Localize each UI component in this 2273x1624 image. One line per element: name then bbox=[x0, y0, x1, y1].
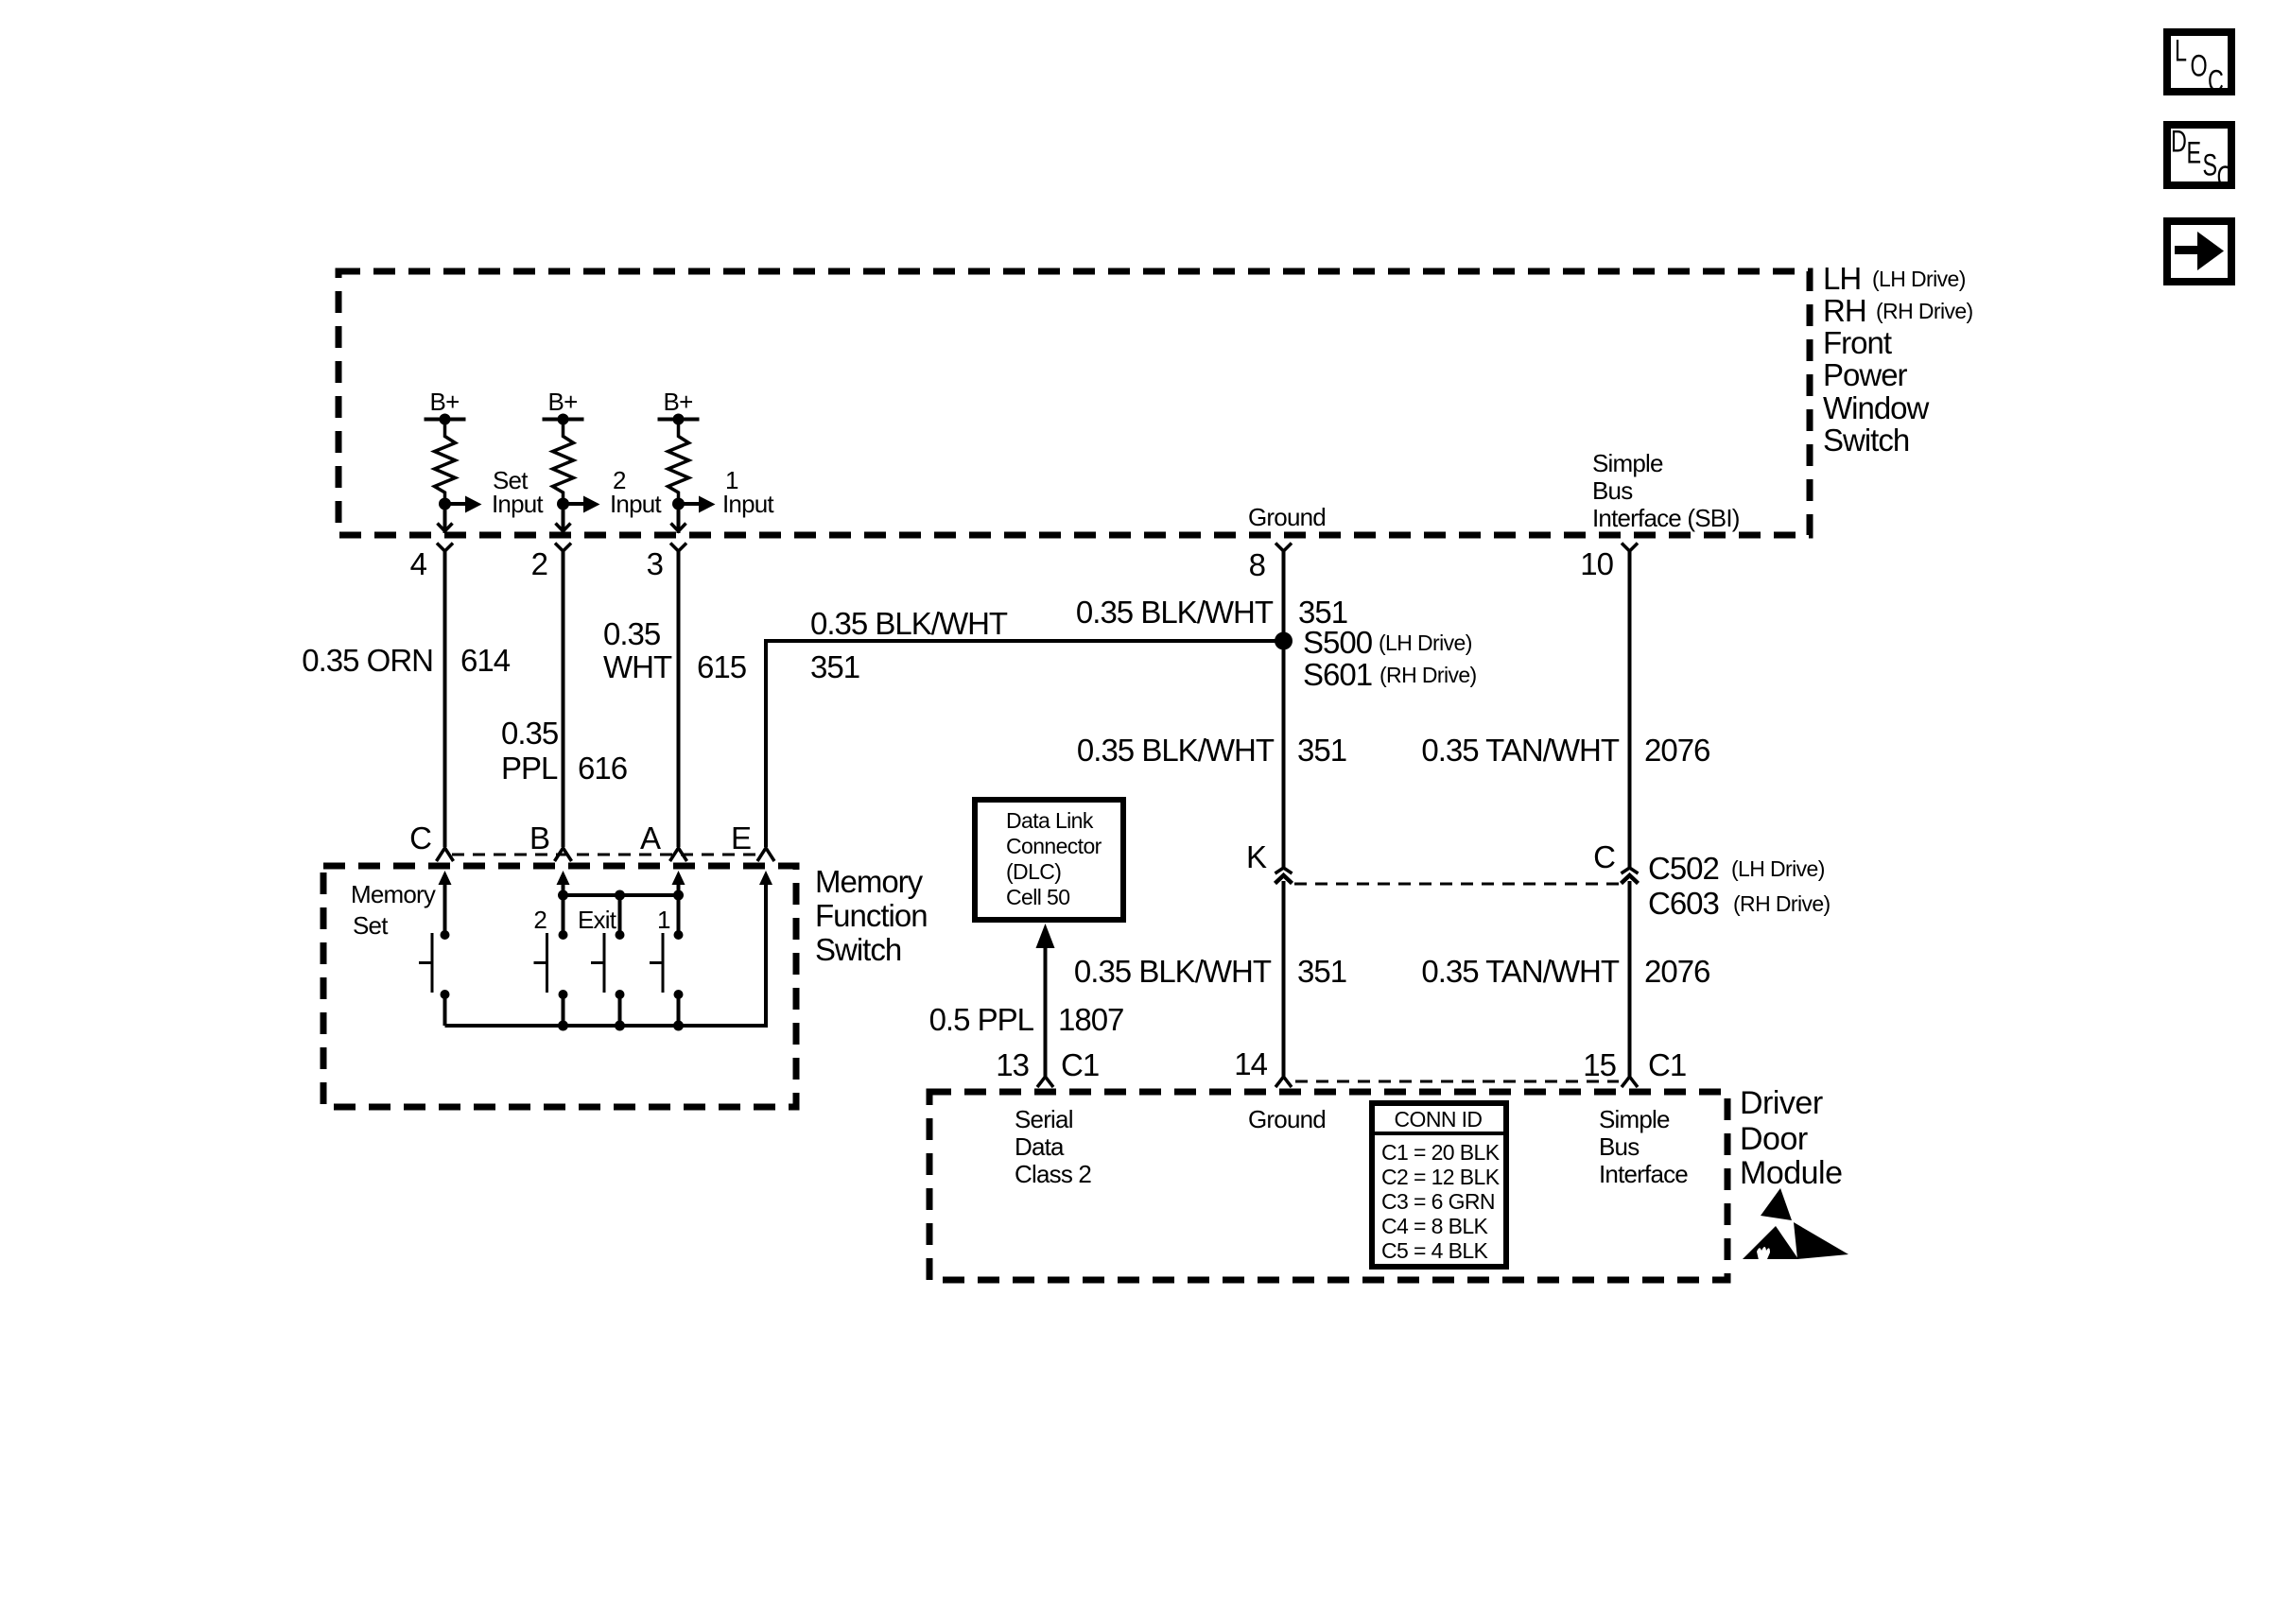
svg-text:WHT: WHT bbox=[603, 649, 672, 684]
wire: pin 8 down to splice and connector K bbox=[1282, 551, 1286, 868]
pin 10 connector bbox=[1580, 544, 1638, 582]
svg-text:351: 351 bbox=[1297, 733, 1346, 768]
switch 1 (pin A branch) bbox=[650, 871, 685, 1026]
Front Power Window Switch dashed box bbox=[338, 271, 1810, 535]
svg-text:C603: C603 bbox=[1648, 886, 1719, 921]
svg-text:C1 = 20 BLK: C1 = 20 BLK bbox=[1381, 1140, 1501, 1165]
svg-text:0.35 ORN: 0.35 ORN bbox=[302, 643, 433, 678]
svg-text:C: C bbox=[409, 821, 431, 855]
svg-text:0.35: 0.35 bbox=[501, 716, 558, 751]
wire: pin 13 to DLC with up arrow (0.5 PPL 1807) bbox=[929, 924, 1124, 1077]
Simple Bus Interface label (module pin 15) bbox=[1599, 1105, 1688, 1188]
svg-text:E: E bbox=[731, 821, 751, 855]
DESC icon box bbox=[2167, 125, 2232, 194]
svg-text:Connector: Connector bbox=[1006, 834, 1102, 858]
B+ terminal (2 input branch) bbox=[543, 388, 584, 425]
svg-text:C4 = 8 BLK: C4 = 8 BLK bbox=[1381, 1214, 1489, 1238]
Set Input tap arrow bbox=[445, 466, 545, 518]
in-line connector C502/C603 at C bbox=[1593, 839, 1830, 921]
svg-text:0.35 TAN/WHT: 0.35 TAN/WHT bbox=[1421, 733, 1619, 768]
memory pin A bbox=[640, 821, 687, 861]
wire label: 0.35 TAN/WHT 2076 (lower) bbox=[1421, 954, 1709, 989]
pin 2 connector bbox=[531, 544, 571, 582]
svg-text:(LH Drive): (LH Drive) bbox=[1731, 856, 1825, 881]
node: Set input tap bbox=[439, 498, 451, 510]
Memory Function Switch label bbox=[815, 864, 928, 967]
svg-text:615: 615 bbox=[697, 649, 746, 684]
svg-text:Bus: Bus bbox=[1592, 476, 1633, 505]
svg-text:C3 = 6 GRN: C3 = 6 GRN bbox=[1381, 1189, 1495, 1214]
wire label: 0.35 BLK/WHT 351 (lower) bbox=[1074, 954, 1346, 989]
svg-text:616: 616 bbox=[578, 751, 627, 786]
svg-text:C5 = 4 BLK: C5 = 4 BLK bbox=[1381, 1238, 1489, 1263]
svg-text:C2 = 12 BLK: C2 = 12 BLK bbox=[1381, 1165, 1501, 1189]
svg-text:14: 14 bbox=[1234, 1046, 1267, 1081]
memory set switch (pin C branch) bbox=[419, 871, 452, 1026]
svg-text:1: 1 bbox=[657, 906, 670, 934]
B+ terminal (Set input branch) bbox=[425, 388, 466, 425]
svg-text:E: E bbox=[2187, 136, 2202, 169]
Driver Door Module dashed box bbox=[929, 1092, 1727, 1280]
svg-text:0.35 BLK/WHT: 0.35 BLK/WHT bbox=[1076, 595, 1274, 630]
in-line connector C502/C603 at K bbox=[1246, 839, 1293, 884]
memory pin B bbox=[529, 821, 572, 861]
svg-text:C1: C1 bbox=[1061, 1047, 1099, 1082]
svg-text:Input: Input bbox=[722, 490, 774, 518]
wire label: 0.35 BLK/WHT 351 (mid) bbox=[1077, 733, 1346, 768]
Memory Function Switch dashed box bbox=[323, 866, 796, 1107]
node: 2 input tap bbox=[557, 498, 569, 510]
svg-text:B: B bbox=[529, 821, 549, 855]
svg-text:Driver: Driver bbox=[1740, 1085, 1823, 1121]
svg-text:Interface (SBI): Interface (SBI) bbox=[1592, 504, 1740, 532]
wire: 2 input to pin 2 with arrowhead bbox=[556, 504, 571, 533]
svg-text:D: D bbox=[2171, 125, 2187, 158]
wire label near splice: 0.35 BLK/WHT 351 bbox=[1076, 595, 1347, 630]
CONN ID table bbox=[1372, 1103, 1506, 1267]
pull-up resistor (Set input) bbox=[435, 420, 456, 505]
wire: connector K to pin 14 bbox=[1282, 881, 1286, 1077]
svg-text:CONN ID: CONN ID bbox=[1395, 1107, 1483, 1132]
svg-text:Function: Function bbox=[815, 898, 928, 933]
svg-text:Switch: Switch bbox=[1823, 423, 1909, 458]
svg-text:C502: C502 bbox=[1648, 851, 1719, 886]
memory connector dashed line bbox=[452, 854, 758, 856]
svg-text:Set: Set bbox=[353, 911, 389, 940]
svg-text:A: A bbox=[640, 821, 661, 855]
svg-text:Input: Input bbox=[610, 490, 662, 518]
svg-text:K: K bbox=[1246, 839, 1267, 874]
svg-text:C: C bbox=[1593, 839, 1615, 874]
wire: 1 input to pin 3 with arrowhead bbox=[671, 504, 686, 533]
svg-text:0.35 BLK/WHT: 0.35 BLK/WHT bbox=[810, 606, 1008, 641]
svg-text:10: 10 bbox=[1580, 546, 1613, 581]
svg-text:(RH Drive): (RH Drive) bbox=[1876, 299, 1973, 323]
memory pin E bbox=[731, 821, 774, 861]
svg-text:Memory: Memory bbox=[815, 864, 924, 899]
svg-text:C: C bbox=[2208, 64, 2224, 97]
Data Link Connector (DLC) box bbox=[975, 800, 1123, 920]
exit switch bbox=[578, 895, 625, 1026]
pin 15 connector bbox=[1583, 1047, 1686, 1087]
svg-text:(LH Drive): (LH Drive) bbox=[1872, 267, 1966, 291]
svg-text:Switch: Switch bbox=[815, 932, 901, 967]
wire: pin 2 to memory pin B (0.35 PPL 616) bbox=[562, 551, 565, 847]
wire: Set input to pin 4 with arrowhead bbox=[438, 504, 453, 533]
1 Input tap arrow bbox=[679, 466, 775, 518]
svg-text:C: C bbox=[2217, 160, 2233, 193]
svg-text:351: 351 bbox=[810, 649, 859, 684]
svg-text:(RH Drive): (RH Drive) bbox=[1379, 663, 1477, 687]
svg-text:2076: 2076 bbox=[1644, 954, 1709, 989]
svg-text:(LH Drive): (LH Drive) bbox=[1379, 631, 1472, 655]
switch 2 (pin B branch) bbox=[533, 871, 569, 1026]
pin 8 connector bbox=[1249, 544, 1292, 583]
wire: pin 4 to memory pin C (0.35 ORN 614) bbox=[443, 551, 447, 847]
svg-text:Simple: Simple bbox=[1592, 449, 1663, 477]
Front Power Window Switch label bbox=[1823, 261, 1973, 458]
svg-text:B+: B+ bbox=[548, 388, 578, 416]
svg-text:2076: 2076 bbox=[1644, 733, 1709, 768]
wire: pin 10 down to connector C (0.35 TAN/WHT 2076) bbox=[1421, 551, 1709, 868]
svg-text:Door: Door bbox=[1740, 1121, 1808, 1157]
svg-text:0.5 PPL: 0.5 PPL bbox=[929, 1002, 1034, 1037]
wire: pin 3 to memory pin A (0.35 WHT 615) bbox=[677, 551, 681, 847]
svg-text:2: 2 bbox=[533, 906, 547, 934]
2 Input tap arrow bbox=[564, 466, 663, 518]
svg-text:Simple: Simple bbox=[1599, 1105, 1670, 1133]
svg-text:Cell 50: Cell 50 bbox=[1006, 885, 1069, 909]
forward arrow icon box bbox=[2167, 221, 2231, 282]
node: 1 input tap bbox=[672, 498, 685, 510]
LOC icon box bbox=[2167, 32, 2231, 97]
pin 14 connector bbox=[1234, 1046, 1292, 1087]
DDM connector dashed line pins 14-15 bbox=[1295, 1080, 1619, 1083]
svg-text:Class 2: Class 2 bbox=[1015, 1160, 1091, 1188]
svg-text:Ground: Ground bbox=[1248, 1105, 1326, 1133]
memory link wire B-Exit-A bbox=[558, 890, 684, 901]
svg-text:S601: S601 bbox=[1303, 657, 1372, 692]
svg-text:13: 13 bbox=[996, 1047, 1029, 1082]
Serial Data Class 2 label bbox=[1015, 1105, 1091, 1188]
svg-text:S: S bbox=[2203, 148, 2218, 181]
Simple Bus Interface (SBI) label (switch pin 10) bbox=[1592, 449, 1740, 532]
svg-text:Module: Module bbox=[1740, 1155, 1843, 1191]
svg-text:Front: Front bbox=[1823, 325, 1892, 360]
pin 4 connector bbox=[410, 544, 453, 582]
svg-text:Serial: Serial bbox=[1015, 1105, 1073, 1133]
splice S500/S601 bbox=[1275, 625, 1477, 692]
memory common bus wire to pin E bbox=[445, 871, 773, 1031]
svg-text:8: 8 bbox=[1249, 547, 1265, 582]
svg-text:Exit: Exit bbox=[578, 906, 617, 934]
svg-text:B+: B+ bbox=[430, 388, 460, 416]
svg-text:S500: S500 bbox=[1303, 625, 1373, 660]
svg-text:0.35 BLK/WHT: 0.35 BLK/WHT bbox=[1077, 733, 1275, 768]
svg-text:Memory: Memory bbox=[351, 880, 436, 908]
svg-text:0.35 TAN/WHT: 0.35 TAN/WHT bbox=[1421, 954, 1619, 989]
svg-text:3: 3 bbox=[647, 546, 663, 581]
in-line connector dashed line bbox=[1294, 883, 1619, 886]
svg-text:351: 351 bbox=[1297, 954, 1346, 989]
ESD sensitive device symbol bbox=[1743, 1188, 1848, 1260]
wire: connector C to pin 15 bbox=[1628, 881, 1632, 1077]
svg-text:LH: LH bbox=[1823, 261, 1861, 296]
pin 3 connector bbox=[647, 544, 686, 582]
svg-text:(DLC): (DLC) bbox=[1006, 859, 1061, 884]
svg-text:0.35: 0.35 bbox=[603, 616, 660, 651]
pull-up resistor (2 input) bbox=[553, 420, 574, 505]
svg-text:Power: Power bbox=[1823, 357, 1908, 392]
svg-text:2: 2 bbox=[531, 546, 547, 581]
svg-text:B+: B+ bbox=[664, 388, 693, 416]
svg-text:Interface: Interface bbox=[1599, 1160, 1688, 1188]
svg-text:(RH Drive): (RH Drive) bbox=[1733, 891, 1831, 916]
svg-text:614: 614 bbox=[460, 643, 511, 678]
B+ terminal (1 input branch) bbox=[658, 388, 700, 425]
pin 13 connector bbox=[996, 1047, 1099, 1087]
svg-text:PPL: PPL bbox=[501, 751, 558, 786]
svg-text:0.35 BLK/WHT: 0.35 BLK/WHT bbox=[1074, 954, 1272, 989]
svg-text:O: O bbox=[2191, 49, 2208, 82]
svg-text:Data: Data bbox=[1015, 1132, 1065, 1161]
svg-text:Data Link: Data Link bbox=[1006, 808, 1094, 833]
svg-text:Ground: Ground bbox=[1248, 503, 1326, 531]
svg-text:L: L bbox=[2175, 34, 2187, 67]
Memory Set label bbox=[351, 880, 436, 940]
pull-up resistor (1 input) bbox=[668, 420, 689, 505]
svg-text:15: 15 bbox=[1583, 1047, 1616, 1082]
svg-text:Input: Input bbox=[492, 490, 544, 518]
wire: memory pin E up and across to S500 (0.35 BLK/WHT 351) bbox=[766, 606, 1284, 847]
Driver Door Module label bbox=[1740, 1085, 1843, 1191]
memory pin C bbox=[409, 821, 453, 861]
svg-text:Window: Window bbox=[1823, 390, 1930, 425]
svg-text:RH: RH bbox=[1823, 293, 1866, 328]
svg-text:4: 4 bbox=[410, 546, 427, 581]
svg-text:C1: C1 bbox=[1648, 1047, 1686, 1082]
svg-text:1807: 1807 bbox=[1058, 1002, 1123, 1037]
svg-text:Bus: Bus bbox=[1599, 1132, 1640, 1161]
